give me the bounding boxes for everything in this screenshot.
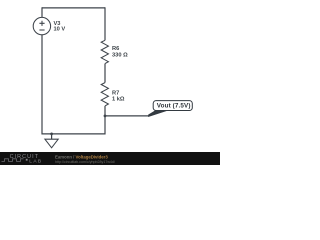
svg-text:10 V: 10 V (54, 26, 66, 32)
svg-text:LAB: LAB (29, 158, 42, 164)
svg-text:1 kΩ: 1 kΩ (112, 97, 125, 103)
svg-text:Eamonn / VoltageDivider3: Eamonn / VoltageDivider3 (55, 154, 108, 159)
svg-text:Vout (7.5V): Vout (7.5V) (157, 102, 191, 109)
svg-text:330 Ω: 330 Ω (112, 53, 128, 59)
svg-text:R6: R6 (112, 46, 119, 52)
svg-text:http://circuitlab.com/c/yhpb28: http://circuitlab.com/c/yhpb28y17w4d/ (55, 160, 115, 164)
svg-text:R7: R7 (112, 90, 119, 96)
